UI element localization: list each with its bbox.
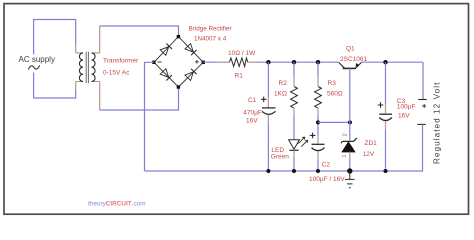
svg-text:Bridge Rectifier: Bridge Rectifier: [189, 26, 232, 33]
wire C1 lower: [267, 115, 269, 171]
svg-text:16V: 16V: [246, 118, 258, 125]
wire output top: [422, 62, 424, 99]
wire C1 upper: [267, 62, 269, 107]
node ZD1 top wire: [348, 120, 352, 124]
resistor R2: [291, 87, 298, 109]
node R2 top: [292, 60, 296, 64]
wire top rail R1 to Q1: [248, 61, 339, 63]
wire AC source loop box: [34, 20, 76, 99]
wire LED to rail: [293, 150, 295, 171]
bridge minus mark: [157, 61, 161, 63]
svg-text:1KΩ: 1KΩ: [274, 90, 287, 97]
svg-text:10Ω / 1W: 10Ω / 1W: [228, 50, 256, 57]
node C1 bottom: [266, 169, 270, 173]
svg-text:theoryCIRCUIT.com: theoryCIRCUIT.com: [88, 201, 146, 208]
node C3 bottom: [384, 169, 388, 173]
wire output bottom: [422, 124, 424, 171]
svg-text:100µF: 100µF: [397, 104, 416, 111]
bridge plus mark: [195, 60, 199, 64]
svg-text:C2: C2: [322, 161, 331, 168]
svg-text:16V: 16V: [398, 113, 410, 120]
wire ZD1 to rail: [349, 152, 351, 171]
svg-text:0-15V Ac: 0-15V Ac: [103, 70, 130, 77]
node C2 bottom: [316, 169, 320, 173]
diode D4 bottom-right: [185, 69, 197, 81]
LED arrows: [298, 137, 305, 144]
transistor Q1: [339, 62, 345, 68]
diode D3 bottom-left: [160, 69, 172, 81]
wire C2 lead stubs: [317, 135, 319, 160]
svg-text:ZD1: ZD1: [365, 140, 378, 147]
svg-text:470µF: 470µF: [243, 110, 262, 117]
wire Q1 base to ZD1: [349, 68, 351, 141]
node R3 top: [316, 60, 320, 64]
svg-text:R1: R1: [235, 73, 244, 80]
resistor R3: [315, 87, 322, 109]
bridge rectifier diamond: [154, 37, 203, 87]
transformer T1 secondary coil: [92, 53, 96, 82]
transformer core: [86, 52, 88, 83]
svg-text:Green: Green: [271, 154, 289, 161]
wire box to primary leads: [75, 44, 77, 90]
wire C3 lower: [385, 121, 387, 171]
svg-text:100µF / 16V: 100µF / 16V: [309, 176, 345, 183]
wire C2 lower: [317, 151, 319, 171]
diode D2 top-right: [185, 44, 197, 56]
svg-text:12V: 12V: [363, 151, 375, 158]
output terminal plus bar: [418, 99, 426, 101]
node R3/C2: [316, 120, 320, 124]
wire R2 upper: [293, 62, 295, 86]
wire bridge right to R1: [203, 61, 229, 63]
node C3 top: [383, 60, 387, 64]
zener ZD1: [341, 138, 357, 143]
svg-text:Q1: Q1: [346, 46, 355, 53]
wire secondary top to bridge: [100, 26, 179, 37]
node LED bottom: [292, 169, 296, 173]
transformer T1 primary coil: [79, 53, 83, 82]
wire R2 to LED: [293, 108, 295, 140]
svg-text:Regulated 12 Volt: Regulated 12 Volt: [433, 82, 442, 165]
svg-text:1N4007 x 4: 1N4007 x 4: [194, 36, 227, 43]
capacitor C2: [312, 143, 325, 145]
wire C3 lead stubs: [385, 105, 387, 130]
ground: [349, 171, 351, 179]
node C1 top: [266, 60, 270, 64]
wire C3 upper: [385, 62, 387, 114]
output plus sign: [422, 104, 426, 108]
LED green indicator: [289, 140, 300, 150]
diode D1 top-left: [160, 44, 172, 56]
wire R2 and LED lead stubs: [293, 77, 295, 158]
wire C1 lead stubs: [267, 98, 269, 125]
svg-text:560Ω: 560Ω: [327, 90, 343, 97]
output terminal minus bar: [417, 123, 425, 125]
transformer T1 secondary jog wires: [92, 53, 100, 82]
wire secondary bottom to bridge: [100, 87, 179, 110]
svg-text:C1: C1: [248, 97, 257, 104]
svg-text:R2: R2: [279, 80, 288, 87]
wire Q1 emitter to output: [361, 61, 423, 63]
AC tilde: [28, 65, 39, 69]
transformer secondary lead top: [99, 26, 101, 53]
capacitor C1: [262, 107, 276, 109]
transformer secondary lead bottom: [99, 82, 101, 111]
wire C2 node to ZD1: [318, 121, 350, 123]
wire bridge left to ground rail: [145, 62, 154, 171]
wire bottom rail: [145, 170, 424, 172]
wire R1 lead stubs: [217, 61, 259, 63]
capacitor C3: [379, 113, 392, 115]
svg-text:Transformer: Transformer: [103, 58, 139, 65]
svg-text:R3: R3: [328, 80, 337, 87]
transformer T1 primary jog wires: [76, 53, 83, 82]
node ZD1 bottom: [347, 168, 352, 173]
wire ZD1 lead stubs: [349, 138, 351, 159]
node bridge right: [202, 61, 205, 64]
node bridge top: [177, 35, 180, 38]
svg-text:AC supply: AC supply: [19, 55, 55, 64]
wire R3 upper: [317, 62, 319, 86]
wire R3 to C2 node: [317, 108, 319, 144]
svg-text:2: 2: [342, 133, 348, 136]
svg-text:1: 1: [342, 155, 348, 158]
node bridge left: [152, 61, 155, 64]
wire R3 lead stubs: [317, 77, 319, 117]
text mask on left edge: [28, 55, 39, 73]
resistor R1: [230, 58, 248, 66]
node bridge bottom: [177, 85, 180, 88]
